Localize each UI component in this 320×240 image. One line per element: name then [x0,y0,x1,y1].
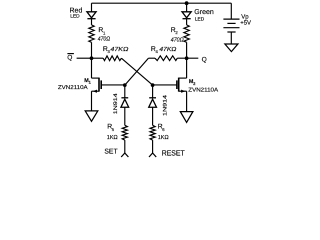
wire R3 left lead [92,57,104,59]
transistor M2 gate bar [176,80,178,89]
wire LED to R2 [186,19,188,25]
wire R3 to M2 gate diagonal [121,58,152,85]
transistor M2 channel bar [178,78,180,92]
wire green LED anode [186,3,188,12]
svg-text:LED: LED [195,16,205,22]
svg-text:Green: Green [194,9,214,16]
svg-text:1KΩ: 1KΩ [158,134,170,141]
wire R2 to M2 drain [186,42,188,78]
wire gate node to D2 [152,85,154,98]
wire R4 left lead [148,57,155,59]
transistor M1 drain arm [92,77,100,79]
svg-text:1N914: 1N914 [113,93,119,114]
svg-text:1: 1 [103,30,106,35]
LED D1 Red [87,12,96,18]
svg-text:47KΩ: 47KΩ [159,46,177,53]
svg-text:Red: Red [70,6,83,14]
svg-text:LED: LED [70,13,80,19]
transistor M1 channel bar [98,78,100,92]
svg-text:Vp: Vp [241,14,249,21]
LED D2 Green [182,12,191,18]
node Qbar junction [90,56,94,60]
transistor M2 source arrow [181,90,185,93]
svg-text:470Ω: 470Ω [171,36,184,43]
wire top rail [92,2,232,4]
wire R1 to M1 drain [91,42,93,78]
terminal SET arrow [121,153,128,157]
svg-text:1N914: 1N914 [162,95,168,116]
wire M2 gate [153,84,177,86]
svg-text:ZVN2110A: ZVN2110A [188,87,218,93]
resistor R4 47K [155,56,177,61]
svg-text:SET: SET [104,148,118,155]
transistor M2 drain arm [179,77,187,79]
resistor R3 47K [103,56,121,61]
resistor R6 1K [150,125,155,140]
wire gate node to D1 [124,85,126,98]
diode D3 1N914 [121,97,128,99]
transistor M2 source arm [179,90,187,92]
svg-text:Q: Q [202,56,207,63]
transistor M1 source arrow [93,90,97,93]
wire D3 to R5 [124,107,126,125]
ground battery [225,44,238,52]
wire M2 source to ground [186,91,188,111]
wire D4 to R6 [152,107,154,125]
resistor R2 470 [184,25,189,42]
wire battery top [230,3,232,18]
battery Vp [223,18,239,20]
wire LED to R1 [91,19,93,25]
wire R6 to RESET [152,140,154,153]
svg-text:6: 6 [162,127,165,132]
resistor R5 1K [122,125,127,140]
svg-text:RESET: RESET [162,149,185,158]
wire R5 to SET [124,140,126,153]
resistor R1 470 [89,25,94,42]
svg-text:1: 1 [89,80,92,85]
wire R4 to M1 gate diagonal [125,58,149,85]
svg-text:1KΩ: 1KΩ [107,134,119,141]
svg-text:470Ω: 470Ω [98,36,111,43]
svg-text:+5V: +5V [240,20,251,27]
transistor M1 source arm [92,90,100,92]
wire Qbar stub [77,57,92,59]
ground M1 [85,111,98,121]
svg-text:2: 2 [193,81,196,86]
svg-text:4: 4 [156,49,159,54]
svg-text:47KΩ: 47KΩ [110,46,129,53]
node M1 gate junction [123,83,127,87]
svg-text:5: 5 [112,127,115,132]
transistor M1 gate bar [100,80,102,89]
wire M1 gate [101,84,125,86]
svg-text:ZVN2110A: ZVN2110A [58,85,88,91]
diode D4 1N914 [149,97,156,99]
node green LED rail junction [185,1,189,5]
wire M1 source to ground [91,91,93,111]
wire red LED anode [91,3,93,12]
node Qbar overline [67,53,74,55]
terminal RESET arrow [149,153,156,157]
node Q junction [185,56,189,60]
svg-text:2: 2 [175,30,178,35]
svg-text:Q: Q [67,54,72,61]
ground M2 [180,112,193,123]
wire battery to ground [230,32,232,44]
wire R4 to Q [177,57,198,59]
node M2 gate junction [151,83,155,87]
